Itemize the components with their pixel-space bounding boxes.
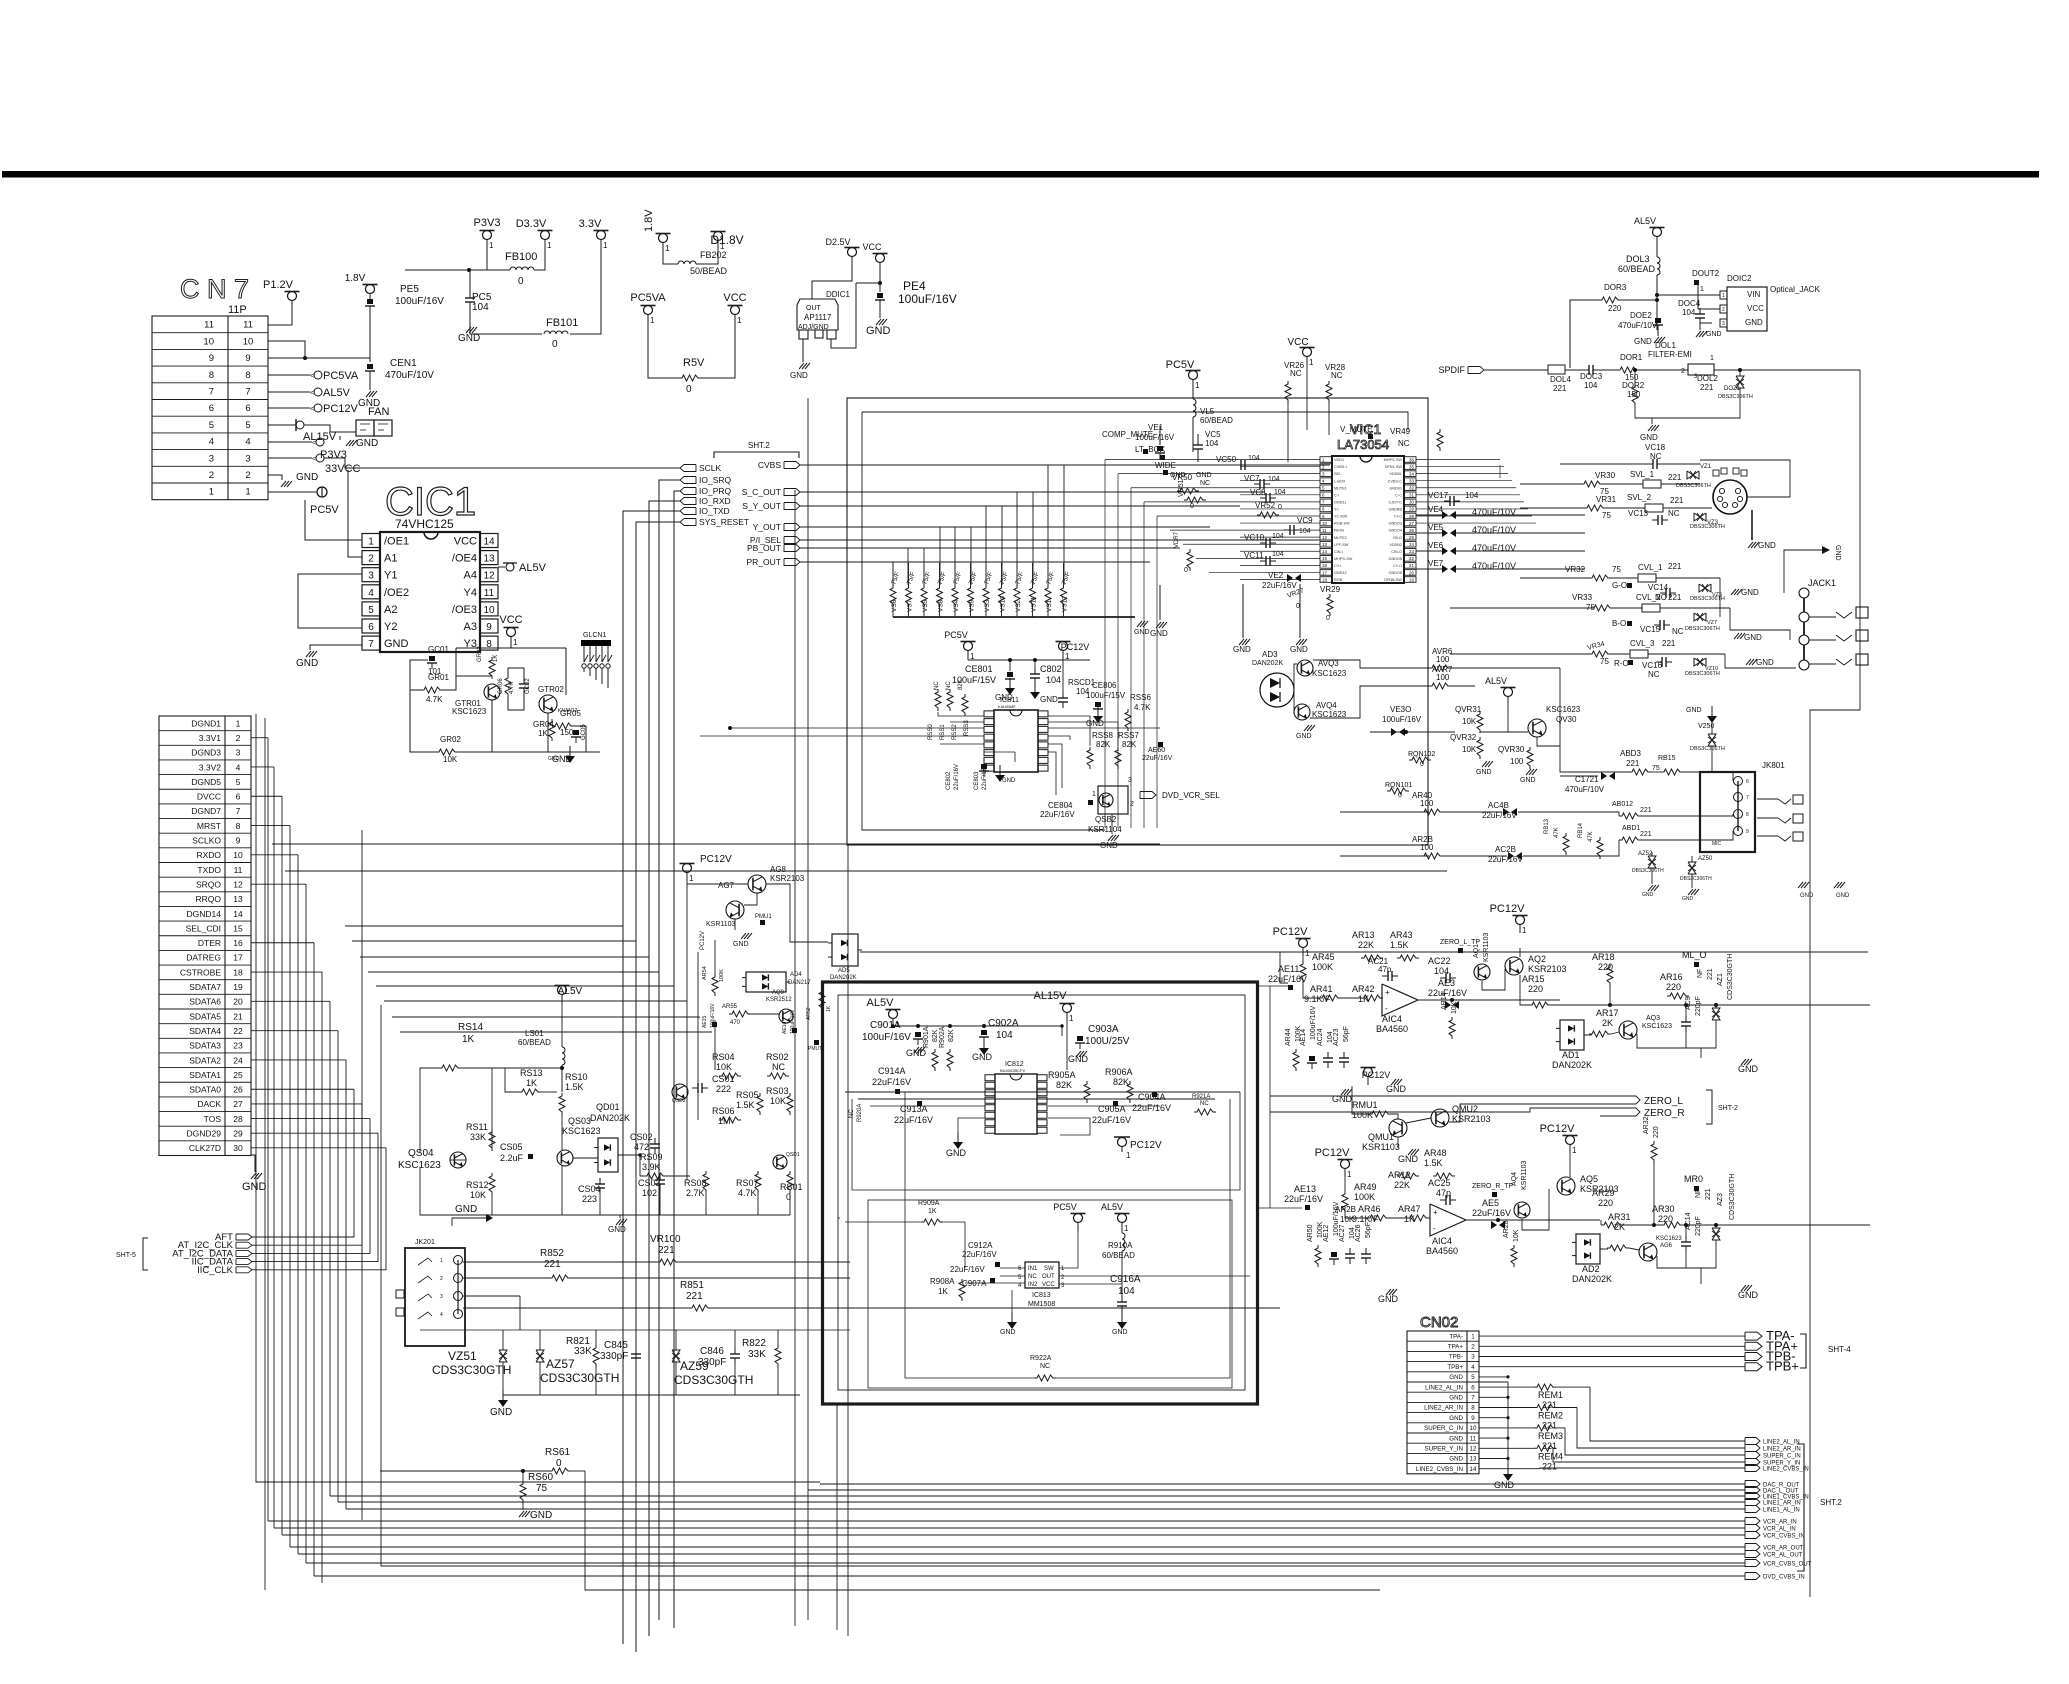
svg-text:TPA-: TPA- bbox=[1449, 1333, 1463, 1340]
transistor AQ4 bbox=[1514, 1202, 1530, 1218]
svg-text:GND: GND bbox=[608, 1225, 626, 1234]
svg-text:RB14: RB14 bbox=[1578, 822, 1584, 838]
svg-text:7: 7 bbox=[236, 806, 241, 816]
svg-text:GND: GND bbox=[790, 371, 808, 380]
svg-text:AQ3: AQ3 bbox=[1646, 1015, 1660, 1022]
svg-text:11: 11 bbox=[484, 588, 495, 599]
svg-text:GTR02: GTR02 bbox=[538, 685, 564, 694]
resistor RS01 bbox=[787, 1171, 793, 1193]
svg-text:100K: 100K bbox=[1354, 1192, 1375, 1202]
svg-text:15: 15 bbox=[1322, 556, 1328, 561]
wire svideo gnd bbox=[1751, 510, 1753, 540]
svg-text:GNDO5: GNDO5 bbox=[1388, 557, 1402, 561]
capacitor C901A bbox=[915, 1032, 921, 1037]
svg-text:REM4: REM4 bbox=[1538, 1451, 1563, 1461]
svg-text:KSC1623: KSC1623 bbox=[452, 707, 487, 716]
wire r851 bbox=[463, 1307, 689, 1309]
wire spdif right vertical bbox=[1810, 370, 1860, 1597]
svg-text:VS12: VS12 bbox=[1062, 596, 1069, 612]
wires avq bbox=[1294, 664, 1297, 690]
resistor RS02 bbox=[767, 1073, 789, 1079]
wire P/I_SEL bbox=[800, 539, 1330, 541]
svg-text:221: 221 bbox=[1705, 1188, 1712, 1200]
svg-text:100U/25V: 100U/25V bbox=[1085, 1036, 1130, 1047]
zener diode VZ51 bbox=[499, 1350, 507, 1362]
resistor VR34 bbox=[1589, 651, 1611, 657]
svg-text:RS13: RS13 bbox=[520, 1068, 543, 1078]
ground bbox=[552, 746, 575, 764]
net tag PR_OUT bbox=[747, 557, 800, 567]
ground bbox=[953, 1132, 963, 1149]
wire vr100 bbox=[463, 1261, 657, 1263]
wire inner rect bbox=[838, 995, 1245, 1390]
wires box bottom bbox=[905, 1092, 1034, 1378]
svg-text:10: 10 bbox=[1470, 1425, 1477, 1432]
svg-text:AQ5: AQ5 bbox=[1580, 1174, 1598, 1184]
svg-text:29: 29 bbox=[1409, 507, 1415, 512]
svg-text:GND: GND bbox=[1640, 433, 1658, 442]
title bar line bbox=[2, 171, 2039, 178]
svg-text:PC12V: PC12V bbox=[1061, 642, 1090, 652]
svg-text:QVR32: QVR32 bbox=[1450, 733, 1477, 742]
svg-text:BA4560: BA4560 bbox=[1426, 1246, 1458, 1256]
svg-text:DTER: DTER bbox=[198, 938, 221, 948]
svg-text:BU4053BCFV: BU4053BCFV bbox=[1000, 1068, 1025, 1073]
ground bbox=[458, 327, 480, 344]
svg-text:CVL_3: CVL_3 bbox=[1630, 639, 1655, 648]
svg-text:SVL_1: SVL_1 bbox=[1630, 470, 1655, 479]
svg-text:C N 7: C N 7 bbox=[180, 274, 249, 304]
wire CN7 pin2 to GND bbox=[268, 475, 282, 480]
resistor AR18 bbox=[1607, 964, 1613, 986]
resistor AR28 bbox=[1511, 1245, 1517, 1267]
resistor DOR3 bbox=[1599, 297, 1621, 303]
svg-text:PC5V: PC5V bbox=[1053, 1202, 1077, 1212]
wire ae13 feed bbox=[1258, 1207, 1302, 1209]
svg-text:GND: GND bbox=[906, 1048, 927, 1058]
connector JK801 bbox=[1700, 761, 1803, 852]
svg-text:GNDO6: GNDO6 bbox=[1388, 571, 1402, 575]
svg-text:NC: NC bbox=[1200, 480, 1210, 487]
svg-text:AC27: AC27 bbox=[1339, 1224, 1346, 1242]
wire staircase bundle bbox=[345, 848, 712, 1032]
svg-text:104: 104 bbox=[472, 302, 489, 313]
capacitor DOC4 bbox=[1699, 308, 1701, 314]
svg-text:PC12V: PC12V bbox=[1130, 1140, 1162, 1151]
svg-text:SDATA1: SDATA1 bbox=[189, 1070, 221, 1080]
svg-text:DOL1: DOL1 bbox=[1655, 341, 1676, 350]
svg-text:AL15V: AL15V bbox=[303, 431, 337, 443]
svg-text:GND: GND bbox=[1196, 472, 1212, 479]
power PC5V icb11 bbox=[944, 630, 975, 661]
resistor R5V bbox=[679, 375, 701, 381]
svg-text:CE803: CE803 bbox=[974, 771, 980, 790]
svg-text:CVL_1: CVL_1 bbox=[1638, 563, 1663, 572]
svg-text:221: 221 bbox=[1668, 593, 1682, 602]
svg-text:SCLKO: SCLKO bbox=[192, 836, 221, 846]
svg-text:221: 221 bbox=[1626, 759, 1640, 768]
svg-text:GND: GND bbox=[1634, 337, 1652, 346]
net tag AT_I2C_CLK bbox=[178, 1240, 252, 1251]
svg-text:VE7: VE7 bbox=[1428, 559, 1444, 568]
svg-text:104: 104 bbox=[1584, 381, 1598, 390]
zener diode DOZ1 bbox=[1736, 376, 1744, 388]
zener diode VZ10 bbox=[1694, 658, 1706, 666]
resistor AR17 bbox=[1589, 1031, 1611, 1037]
inductor FB202 coil bbox=[678, 261, 696, 264]
svg-text:JACK1: JACK1 bbox=[1808, 578, 1836, 588]
svg-text:2: 2 bbox=[245, 470, 250, 481]
svg-text:1: 1 bbox=[665, 244, 670, 253]
svg-text:3: 3 bbox=[1471, 1354, 1475, 1361]
svg-text:10: 10 bbox=[243, 336, 254, 347]
svg-text:1: 1 bbox=[650, 316, 655, 325]
svg-text:1: 1 bbox=[1069, 1014, 1074, 1023]
svg-text:7: 7 bbox=[245, 386, 250, 397]
svg-text:KSR1104: KSR1104 bbox=[1088, 825, 1122, 834]
svg-text:31: 31 bbox=[1409, 493, 1415, 498]
net tag LINE1_AL_IN bbox=[1745, 1506, 1800, 1514]
svg-text:AE11: AE11 bbox=[1278, 964, 1299, 974]
wire video section inner route 2 bbox=[862, 412, 1105, 830]
resistor REM2 bbox=[1534, 1405, 1556, 1411]
svg-text:4.7K: 4.7K bbox=[1134, 703, 1151, 712]
resistor AR30 bbox=[1661, 1222, 1683, 1228]
svg-text:AE14: AE14 bbox=[1300, 1029, 1307, 1046]
svg-text:CE804: CE804 bbox=[1048, 801, 1073, 810]
inductor FB100 coil bbox=[510, 267, 534, 270]
svg-text:VC5: VC5 bbox=[1205, 430, 1221, 439]
capacitor CE801 bbox=[1007, 672, 1013, 677]
svg-text:22uF/16V: 22uF/16V bbox=[872, 1077, 911, 1087]
svg-text:VCC: VCC bbox=[454, 536, 477, 548]
svg-text:0: 0 bbox=[518, 276, 524, 287]
resistor AR14 bbox=[1449, 1017, 1455, 1039]
svg-text:22uF/16V: 22uF/16V bbox=[950, 1265, 985, 1274]
resistor RS03 bbox=[787, 1093, 793, 1115]
svg-text:24: 24 bbox=[1409, 542, 1415, 547]
ground bbox=[1741, 1285, 1752, 1291]
svg-text:MHPS-SW: MHPS-SW bbox=[1334, 557, 1353, 561]
svg-text:GND12: GND12 bbox=[1334, 571, 1347, 575]
svg-text:VE6: VE6 bbox=[1428, 541, 1444, 550]
svideo DIN connector bbox=[1713, 468, 1747, 514]
svg-text:ABD3: ABD3 bbox=[1620, 749, 1641, 758]
ground bbox=[616, 1219, 627, 1225]
svg-text:<: < bbox=[312, 456, 316, 463]
IC VIC1 LA73054 bbox=[1320, 456, 1416, 583]
svg-text:KSR2103: KSR2103 bbox=[770, 874, 805, 883]
svg-text:QVR30: QVR30 bbox=[1498, 745, 1525, 754]
svg-text:AD3: AD3 bbox=[1262, 650, 1278, 659]
svg-text:VR31: VR31 bbox=[1596, 495, 1617, 504]
resistor AR13 bbox=[1361, 955, 1383, 961]
svg-text:22K: 22K bbox=[1394, 1180, 1410, 1190]
svg-text:<: < bbox=[310, 373, 314, 380]
svg-text:221: 221 bbox=[1553, 384, 1567, 393]
ground bbox=[1482, 761, 1493, 767]
svg-text:DOE2: DOE2 bbox=[1630, 311, 1652, 320]
wire P3V3 rail bbox=[487, 240, 510, 270]
svg-text:13: 13 bbox=[233, 894, 243, 904]
resistor AR47 bbox=[1407, 1215, 1429, 1221]
svg-text:CE801: CE801 bbox=[965, 664, 993, 674]
resistor VR26 bbox=[1285, 381, 1291, 403]
svg-text:DVCC: DVCC bbox=[197, 792, 221, 802]
svg-text:3: 3 bbox=[440, 1294, 443, 1300]
svg-text:10: 10 bbox=[233, 850, 243, 860]
svg-text:DBS3C306TH: DBS3C306TH bbox=[1680, 876, 1712, 882]
svg-text:2: 2 bbox=[1722, 307, 1725, 313]
net tag DVD_VCR_SEL bbox=[1140, 792, 1156, 799]
svg-text:KSR2103: KSR2103 bbox=[1452, 1114, 1491, 1124]
svg-text:VR100: VR100 bbox=[650, 1234, 681, 1245]
wire bus inside left 1 bbox=[836, 1404, 838, 1630]
wires jack1 bbox=[1809, 616, 1836, 618]
svg-text:11: 11 bbox=[234, 865, 243, 875]
svg-text:13: 13 bbox=[1322, 542, 1328, 547]
svg-text:VCR_CVBS_IN: VCR_CVBS_IN bbox=[1763, 1534, 1805, 1540]
svg-text:BA4560: BA4560 bbox=[1376, 1024, 1408, 1034]
svg-text:DOL4: DOL4 bbox=[1550, 375, 1571, 384]
svg-text:RS03: RS03 bbox=[766, 1086, 789, 1096]
resistor VR52 bbox=[1257, 512, 1279, 518]
svg-text:1: 1 bbox=[1710, 355, 1714, 362]
svg-text:0: 0 bbox=[1296, 603, 1300, 610]
svg-text:AR42: AR42 bbox=[1352, 984, 1375, 994]
svg-text:100uF/16V: 100uF/16V bbox=[898, 292, 957, 306]
power PC12V a2 bbox=[1490, 903, 1528, 935]
ground bbox=[1150, 622, 1168, 638]
svg-text:PR_OUT: PR_OUT bbox=[747, 557, 781, 567]
svg-text:1: 1 bbox=[1126, 1151, 1131, 1160]
svg-text:L-BOX: L-BOX bbox=[1334, 479, 1346, 483]
svg-text:2: 2 bbox=[1130, 801, 1134, 808]
wires ab group bbox=[1340, 811, 1429, 813]
resistor GR06 bbox=[505, 675, 511, 697]
capacitor C903A bbox=[1077, 1036, 1083, 1041]
svg-text:DBS3C306TH: DBS3C306TH bbox=[1718, 394, 1753, 400]
svg-text:R901A: R901A bbox=[923, 1026, 930, 1048]
svg-text:8: 8 bbox=[245, 370, 250, 381]
wire vc18 bbox=[1560, 463, 1648, 465]
svg-text:17: 17 bbox=[1322, 570, 1328, 575]
svg-text:NC: NC bbox=[1331, 371, 1343, 380]
svg-text:4: 4 bbox=[236, 762, 241, 772]
svg-text:DOR3: DOR3 bbox=[1604, 283, 1627, 292]
net tag ZERO_L bbox=[1600, 1096, 1683, 1107]
svg-text:VDD1: VDD1 bbox=[1334, 458, 1344, 462]
svg-text:GND: GND bbox=[1744, 633, 1762, 642]
svg-text:REM3: REM3 bbox=[1538, 1431, 1563, 1441]
svg-text:VS10: VS10 bbox=[1000, 596, 1007, 612]
resistor VDR7 bbox=[1187, 549, 1193, 571]
wire audio feed vertical bbox=[1269, 986, 1271, 1208]
wires rs cluster bbox=[461, 1067, 560, 1069]
svg-text:SHT.2: SHT.2 bbox=[1820, 1498, 1842, 1507]
svg-text:R852: R852 bbox=[540, 1248, 564, 1259]
inductor DOL3 coil bbox=[1657, 257, 1660, 275]
svg-text:ZERO_R: ZERO_R bbox=[1644, 1108, 1685, 1119]
svg-text:IO_TXD: IO_TXD bbox=[699, 506, 730, 516]
wire jk201 row4 bbox=[463, 1295, 520, 1297]
svg-text:25: 25 bbox=[1409, 535, 1415, 540]
power VCC mid bbox=[723, 292, 746, 325]
svg-text:220: 220 bbox=[1528, 984, 1543, 994]
svg-text:RQN101: RQN101 bbox=[1385, 782, 1412, 789]
svg-text:SEL_CDI: SEL_CDI bbox=[186, 923, 221, 933]
svg-text:AZ3: AZ3 bbox=[1717, 1193, 1724, 1206]
svg-text:GND: GND bbox=[1738, 1064, 1759, 1074]
svg-text:IN2: IN2 bbox=[1028, 1282, 1038, 1288]
svg-text:C905A: C905A bbox=[1098, 1104, 1126, 1114]
svg-text:6: 6 bbox=[1746, 779, 1749, 785]
svg-text:100: 100 bbox=[1420, 799, 1434, 808]
svg-text:9: 9 bbox=[1471, 1415, 1475, 1422]
svg-text:VE5: VE5 bbox=[1428, 523, 1444, 532]
svg-text:VS1: VS1 bbox=[1046, 599, 1053, 612]
svg-text:221: 221 bbox=[1707, 968, 1714, 980]
svg-text:AD2: AD2 bbox=[1582, 1264, 1600, 1274]
svg-text:PC5V: PC5V bbox=[944, 630, 968, 640]
resistor RS06 bbox=[719, 1117, 741, 1123]
svg-text:P3V3: P3V3 bbox=[474, 217, 501, 229]
wire lower subcircuit rect bbox=[868, 1200, 1232, 1388]
power PC12V icb11 bbox=[1056, 642, 1090, 662]
svg-text:SYS_RESET: SYS_RESET bbox=[699, 517, 749, 527]
svg-text:100K: 100K bbox=[719, 969, 725, 982]
power D1.8V bbox=[710, 232, 743, 252]
wires VIC1 right bus bbox=[1416, 460, 1536, 524]
net tag LINE2_CVBS_IN bbox=[1745, 1465, 1809, 1473]
svg-text:VCR_AR_IN: VCR_AR_IN bbox=[1763, 1520, 1797, 1526]
svg-text:104: 104 bbox=[1272, 551, 1284, 558]
svg-text:GND: GND bbox=[1296, 733, 1312, 740]
wire CN7 pin6 bbox=[268, 407, 310, 409]
svg-text:SDATA4: SDATA4 bbox=[189, 1026, 221, 1036]
net tag IIC_DATA bbox=[192, 1257, 252, 1268]
zener diode AZ57 bbox=[536, 1350, 544, 1362]
diode array AD4 bbox=[742, 972, 790, 992]
svg-text:KSR1103: KSR1103 bbox=[1483, 932, 1490, 962]
svg-text:30: 30 bbox=[1409, 500, 1415, 505]
zener diode AZ1 bbox=[1712, 1008, 1720, 1020]
svg-text:4.7K: 4.7K bbox=[738, 1188, 757, 1198]
wire PR_OUT bbox=[800, 561, 1150, 563]
net tag DAC_R_OUT bbox=[1745, 1481, 1800, 1489]
svg-text:220: 220 bbox=[1653, 1126, 1660, 1138]
svg-text:2: 2 bbox=[1471, 1343, 1475, 1350]
svg-text:LINE2_AL_IN: LINE2_AL_IN bbox=[1425, 1384, 1463, 1391]
svg-text:2.2uF: 2.2uF bbox=[500, 1153, 524, 1163]
svg-text:82K: 82K bbox=[958, 679, 964, 690]
net tag PB_OUT bbox=[747, 543, 800, 553]
power PC5V box bbox=[1053, 1202, 1085, 1231]
svg-text:SEL: SEL bbox=[1334, 472, 1341, 476]
net tag ZERO_R bbox=[1600, 1108, 1685, 1119]
svg-text:ABD1: ABD1 bbox=[1622, 825, 1640, 832]
svg-text:26: 26 bbox=[1409, 528, 1415, 533]
wire bus below box 2 bbox=[794, 490, 796, 1626]
svg-text:GC02: GC02 bbox=[525, 678, 531, 694]
svg-text:GND: GND bbox=[1494, 1480, 1515, 1490]
svg-text:AR32: AR32 bbox=[1643, 1116, 1650, 1134]
wire CN7 pin8 bbox=[268, 374, 310, 376]
svg-text:3: 3 bbox=[1722, 321, 1725, 327]
svg-text:GND: GND bbox=[946, 1148, 967, 1158]
wire zero bus bbox=[560, 1066, 563, 1069]
svg-text:CDS3C30GTH: CDS3C30GTH bbox=[432, 1363, 511, 1377]
svg-text:RS12: RS12 bbox=[466, 1180, 489, 1190]
ground bbox=[1734, 633, 1745, 639]
resistor RS07 bbox=[755, 1171, 761, 1193]
svg-text:7: 7 bbox=[368, 639, 374, 650]
svg-text:GND: GND bbox=[1706, 331, 1722, 338]
wire thick enclosure box bbox=[823, 982, 1258, 1404]
svg-text:AB012: AB012 bbox=[1612, 801, 1633, 808]
svg-text:1: 1 bbox=[1722, 293, 1725, 299]
svg-text:14: 14 bbox=[1470, 1466, 1477, 1473]
svg-text:3.3V1: 3.3V1 bbox=[199, 733, 221, 743]
svg-text:DGND5: DGND5 bbox=[191, 777, 221, 787]
resistor AR2B bbox=[1421, 853, 1443, 859]
resistor AR15 bbox=[1529, 1002, 1551, 1008]
wire 30pin gnd bbox=[251, 1155, 255, 1172]
svg-text:10K: 10K bbox=[770, 1096, 786, 1106]
resistor AR50 bbox=[1315, 1245, 1321, 1267]
svg-text:22uF/16V: 22uF/16V bbox=[1132, 1103, 1171, 1113]
svg-text:AR52: AR52 bbox=[806, 1007, 812, 1020]
svg-text:GND: GND bbox=[972, 1052, 993, 1062]
svg-text:DBS3C306TH: DBS3C306TH bbox=[1676, 483, 1711, 489]
svg-text:32: 32 bbox=[1409, 486, 1415, 491]
wires ic813 bbox=[1000, 1267, 1025, 1269]
transistor AQ1 bbox=[1474, 964, 1490, 980]
wires svideo right bbox=[1700, 460, 1790, 497]
resistor VR100 bbox=[657, 1259, 679, 1265]
svg-text:1: 1 bbox=[737, 316, 742, 325]
ground bbox=[1093, 706, 1103, 723]
svg-text:1.5K: 1.5K bbox=[1390, 940, 1409, 950]
inductor FB101 coil bbox=[544, 331, 568, 334]
svg-text:D2.5V: D2.5V bbox=[825, 237, 850, 247]
svg-text:1K: 1K bbox=[493, 655, 499, 662]
resistor R908A bbox=[959, 1279, 965, 1301]
wire CIC1 left pins bbox=[305, 500, 362, 540]
power flag P3V3 bbox=[316, 438, 324, 446]
svg-text:RB13: RB13 bbox=[1544, 818, 1550, 834]
wire ae11 feed bbox=[1258, 985, 1288, 987]
svg-text:SDATA5: SDATA5 bbox=[189, 1011, 221, 1021]
svg-text:VIN: VIN bbox=[1747, 290, 1761, 299]
wire CN7 pin1 bbox=[268, 491, 316, 493]
connector CN02 table bbox=[1407, 1331, 1479, 1474]
resistor R851 bbox=[689, 1305, 711, 1311]
svg-text:LINE1_AR_IN: LINE1_AR_IN bbox=[1763, 1501, 1801, 1507]
svg-text:QV30: QV30 bbox=[1556, 715, 1577, 724]
wire CVBS to VIC1 bbox=[800, 464, 1330, 466]
svg-text:60/BEAD: 60/BEAD bbox=[1618, 264, 1656, 274]
svg-text:19: 19 bbox=[233, 982, 243, 992]
svg-text:12: 12 bbox=[233, 879, 243, 889]
svg-text:221: 221 bbox=[1668, 562, 1682, 571]
svg-text:17: 17 bbox=[233, 953, 243, 963]
svg-text:3.3V2: 3.3V2 bbox=[199, 762, 221, 772]
net tag TPB+ bbox=[1745, 1359, 1799, 1374]
svg-text:7: 7 bbox=[1746, 795, 1749, 801]
svg-text:1: 1 bbox=[1522, 926, 1527, 935]
svg-text:AR50: AR50 bbox=[1307, 1224, 1314, 1242]
